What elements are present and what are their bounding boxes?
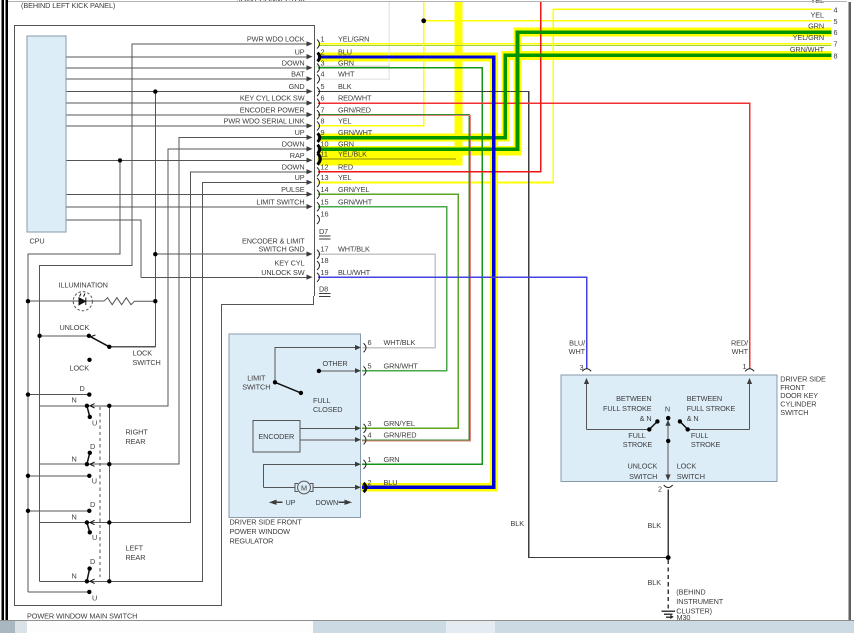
wire pin 19 BLU/WHT to key cylinder pin 3 — [318, 277, 587, 369]
svg-text:YEL/GRN: YEL/GRN — [338, 35, 369, 44]
wire CPU to pin 2 — [66, 56, 309, 58]
M30 marker triangle — [670, 615, 673, 619]
right rear lever B — [87, 453, 90, 464]
wire key cyl pin 3 arrow line — [586, 382, 588, 430]
lamp diode symbol — [79, 294, 86, 306]
svg-text:D: D — [90, 442, 95, 451]
svg-text:WHT: WHT — [732, 347, 749, 356]
connector pin numbers — [321, 35, 329, 277]
svg-text:4: 4 — [368, 430, 372, 439]
wire key cyl rail right — [688, 428, 750, 430]
wire CPU to pin 15 LIMIT SWITCH — [66, 206, 309, 208]
wire CPU to pin 11 RAP — [66, 159, 309, 161]
connector pin arcs bold pins 2,9,10,11,12 — [318, 53, 321, 165]
svg-text:3: 3 — [368, 419, 372, 428]
wire key cylinder pin 2 BLK lead — [667, 490, 669, 558]
svg-text:GRN/YEL: GRN/YEL — [338, 185, 369, 194]
svg-text:GRN/WHT: GRN/WHT — [338, 197, 373, 206]
highlight band pin 11 YEL/BLK and pin 12 area — [317, 2, 463, 165]
svg-text:13: 13 — [321, 173, 329, 182]
svg-text:PWR WDO SERIAL LINK: PWR WDO SERIAL LINK — [224, 117, 305, 126]
svg-text:RED/WHT: RED/WHT — [338, 94, 372, 103]
key cyl top pin arcs — [582, 369, 754, 488]
wire pin 4 WHT to top edge — [318, 2, 389, 79]
svg-text:5: 5 — [834, 17, 838, 26]
wire BLK dashed to ground M30 — [667, 560, 669, 609]
svg-text:17: 17 — [321, 245, 329, 254]
svg-text:BLK: BLK — [511, 519, 525, 528]
svg-text:M: M — [301, 484, 307, 493]
window left border double black line — [2, 0, 5, 621]
svg-text:KEY CYL LOCK SW: KEY CYL LOCK SW — [240, 94, 305, 103]
wire illumination line — [28, 300, 104, 302]
svg-text:CPU: CPU — [30, 237, 45, 246]
bottom scrollbar strip — [0, 621, 854, 633]
wire left rear N line B to pin 13 — [40, 183, 309, 582]
svg-text:CLOSED: CLOSED — [313, 405, 342, 414]
connector pin arc thin pin 12 — [317, 167, 320, 176]
wire pin 12 RED to top edge — [318, 2, 541, 172]
svg-text:N: N — [72, 454, 77, 463]
svg-text:5: 5 — [321, 82, 325, 91]
wire CPU to pin 8 — [66, 125, 309, 127]
junction dot BLK ground node — [666, 555, 671, 560]
left rear lever B — [87, 569, 90, 582]
limit switch contact dots — [273, 369, 321, 395]
svg-text:YEL: YEL — [811, 0, 825, 5]
svg-text:U: U — [92, 533, 97, 542]
svg-text:GRN: GRN — [384, 455, 400, 464]
svg-text:6: 6 — [321, 94, 325, 103]
regulator DOWN arrow — [339, 500, 353, 505]
connector D7/D8 vertical line — [314, 26, 316, 297]
key cyl lock lever — [680, 421, 688, 429]
wire pin 13 YEL to right edge wire 4 — [318, 9, 831, 182]
wire pin 3 GRN to regulator pin 1 — [318, 68, 482, 465]
svg-text:ILLUMINATION: ILLUMINATION — [59, 281, 108, 290]
window right border — [849, 2, 851, 620]
wire N-tie vertical — [108, 406, 110, 582]
svg-text:ENCODER POWER: ENCODER POWER — [240, 105, 305, 114]
svg-text:RIGHT: RIGHT — [126, 428, 149, 437]
wire right rear D line — [28, 394, 89, 396]
svg-text:8: 8 — [834, 51, 838, 60]
dashed mechanical link rear switches — [99, 407, 101, 577]
regulator labels — [242, 359, 347, 507]
wire right rear N line B to pin 9 — [40, 138, 309, 465]
svg-text:SWITCH: SWITCH — [133, 358, 161, 367]
svg-text:LOCK: LOCK — [677, 462, 697, 471]
resistor illumination — [104, 298, 155, 305]
svg-text:9: 9 — [321, 128, 325, 137]
svg-text:D: D — [80, 384, 85, 393]
svg-text:6: 6 — [834, 28, 838, 37]
encoder box — [253, 421, 300, 452]
svg-text:BLK: BLK — [338, 82, 352, 91]
svg-text:YEL: YEL — [338, 117, 352, 126]
connector name D8 — [319, 284, 331, 296]
svg-text:(BEHIND LEFT KICK PANEL): (BEHIND LEFT KICK PANEL) — [21, 1, 115, 10]
svg-text:1: 1 — [743, 362, 747, 371]
wire pin 1 YEL/GRN to right edge wire 7 (yellow part) — [318, 43, 831, 45]
wire CPU to pin 14 PULSE — [66, 193, 309, 195]
wire pin 17 feed — [155, 253, 309, 255]
svg-text:UP: UP — [295, 47, 305, 56]
svg-text:D: D — [90, 557, 95, 566]
svg-text:GRN/RED: GRN/RED — [384, 430, 417, 439]
svg-text:11: 11 — [321, 149, 328, 158]
highlight band pin 2 BLU circuit — [317, 53, 498, 492]
key cyl center line — [667, 418, 669, 479]
svg-text:SWITCH: SWITCH — [677, 472, 705, 481]
wire CPU to pin 7 — [66, 114, 309, 116]
svg-text:FULL: FULL — [313, 396, 330, 405]
svg-text:2: 2 — [658, 485, 662, 494]
svg-text:STROKE: STROKE — [623, 440, 653, 449]
wire key cyl pin 1 arrow line — [749, 382, 751, 430]
right edge pin numbers — [834, 5, 838, 60]
svg-text:INSTRUMENT: INSTRUMENT — [676, 597, 723, 606]
window top border — [8, 1, 847, 3]
svg-text:U: U — [92, 594, 97, 603]
connector signal labels — [224, 35, 306, 277]
svg-text:LOCK: LOCK — [70, 364, 90, 373]
lock switch lever — [89, 336, 109, 347]
wire pin 6 RED/WHT to key cylinder pin 1 — [318, 103, 750, 369]
label RED/WHT at key cyl pin 1 — [731, 339, 749, 372]
svg-text:UP: UP — [295, 128, 305, 137]
svg-text:GRN/WHT: GRN/WHT — [790, 45, 825, 54]
svg-text:D: D — [90, 500, 95, 509]
svg-text:SWITCH: SWITCH — [780, 408, 808, 417]
svg-text:FULL STROKE: FULL STROKE — [687, 404, 736, 413]
svg-text:WHT/BLK: WHT/BLK — [338, 245, 370, 254]
wire regulator pin 6 internal — [275, 348, 356, 383]
wire CPU to pin 5 — [66, 91, 309, 93]
power window main switch box outline — [15, 26, 315, 606]
wire RAP branch down to left bus V2 — [28, 160, 120, 592]
svg-text:DOWN: DOWN — [282, 162, 305, 171]
svg-text:BAT: BAT — [291, 70, 305, 79]
svg-text:18: 18 — [321, 256, 329, 265]
svg-text:7: 7 — [834, 39, 838, 48]
wire pin 1 YEL/GRN (green stripe) — [318, 44, 831, 46]
svg-text:19: 19 — [321, 268, 329, 277]
svg-text:POWER WINDOW MAIN SWITCH: POWER WINDOW MAIN SWITCH — [27, 612, 137, 621]
svg-text:BLK: BLK — [648, 521, 662, 530]
svg-text:GRN/WHT: GRN/WHT — [384, 361, 419, 370]
key cylinder box DRIVER SIDE FRONT DOOR KEY CYLINDER SWITCH — [561, 375, 777, 481]
right edge wire labels — [790, 0, 825, 54]
svg-text:4: 4 — [321, 70, 325, 79]
wire CPU horizontal feed at y 220 — [66, 220, 141, 277]
wire CPU to pin 1 via left bus — [40, 44, 309, 581]
svg-text:YEL: YEL — [338, 173, 352, 182]
svg-text:10: 10 — [321, 140, 329, 149]
svg-text:1: 1 — [368, 455, 372, 464]
svg-text:FULL: FULL — [628, 431, 645, 440]
labels left rear switch letters — [72, 500, 98, 603]
svg-text:BLU: BLU — [384, 478, 398, 487]
svg-text:SWITCH: SWITCH — [629, 472, 657, 481]
wire CPU to pin 6 — [66, 102, 309, 104]
wire unlock switch line — [40, 335, 89, 337]
wire pin 7 GRN/RED green part to regulator pin 4 — [318, 115, 469, 440]
svg-text:ENCODER: ENCODER — [258, 432, 294, 441]
svg-text:REGULATOR: REGULATOR — [230, 537, 274, 546]
svg-text:GRN/RED: GRN/RED — [338, 105, 371, 114]
wire regulator OTHER contact to pin 5 — [319, 370, 356, 372]
wire WHT faint parallel — [316, 65, 389, 67]
wire key cyl rail left — [587, 428, 650, 430]
svg-text:N: N — [665, 405, 670, 414]
key cyl unlock lever — [649, 421, 657, 429]
svg-text:BLU/WHT: BLU/WHT — [338, 268, 371, 277]
wire encoder to pin 3 — [300, 427, 356, 429]
svg-text:GND: GND — [289, 82, 305, 91]
svg-text:LOCK: LOCK — [133, 349, 153, 358]
wire encoder to pin 4 — [300, 439, 356, 441]
wire pin 14 GRN/YEL to regulator pin 3 — [318, 194, 458, 428]
svg-text:DOWN: DOWN — [282, 140, 305, 149]
wire pin 2 BLU thick to regulator pin 2 — [318, 57, 494, 487]
svg-text:5: 5 — [368, 361, 372, 370]
wire pin 9 GRN/WHT thick to right edge wire 8 — [318, 55, 832, 137]
svg-text:7: 7 — [321, 105, 325, 114]
svg-text:15: 15 — [321, 197, 329, 206]
svg-text:REAR: REAR — [126, 437, 146, 446]
svg-text:(BEHIND: (BEHIND — [676, 588, 705, 597]
svg-text:DRIVER SIDE FRONT: DRIVER SIDE FRONT — [230, 518, 303, 527]
svg-text:GRN: GRN — [338, 140, 354, 149]
svg-text:SWITCH: SWITCH — [242, 383, 270, 392]
key cylinder caption — [780, 374, 826, 417]
wire pin 19 feed — [141, 276, 309, 278]
svg-text:LIMIT: LIMIT — [247, 374, 266, 383]
key cyl arrowheads — [584, 378, 752, 481]
svg-text:WHT/BLK: WHT/BLK — [384, 338, 416, 347]
highlight band pin 10 GRN circuit — [317, 28, 832, 156]
svg-text:DOWN: DOWN — [316, 498, 339, 507]
svg-text:& N: & N — [640, 414, 652, 423]
svg-text:SWITCH GND: SWITCH GND — [258, 245, 304, 254]
wire GND branch to pin 17 and illumination — [109, 92, 155, 347]
wire left rear D line — [28, 510, 89, 512]
svg-text:U: U — [92, 477, 97, 486]
svg-text:DOWN: DOWN — [282, 59, 305, 68]
wire left rear U line B — [28, 591, 89, 593]
motor M1 symbol — [298, 481, 311, 494]
connector pin arcs thin pins 1,3,4,5,6,7,8,13,14,15,16,17,18,19 — [317, 40, 320, 282]
svg-text:N: N — [72, 396, 77, 405]
regulator pin arrowheads — [355, 345, 361, 490]
svg-text:FULL: FULL — [691, 431, 708, 440]
lever barbs — [90, 335, 95, 584]
label behind instrument cluster — [676, 588, 723, 616]
svg-text:GRN: GRN — [338, 59, 354, 68]
svg-text:N: N — [72, 513, 77, 522]
wire pin 17 WHT/BLK to regulator pin 6 — [318, 254, 435, 348]
svg-text:12: 12 — [321, 162, 329, 171]
svg-text:3: 3 — [580, 363, 584, 372]
regulator pin 2 bold arc — [364, 483, 367, 492]
svg-text:GRN: GRN — [808, 22, 824, 31]
svg-text:U: U — [92, 419, 97, 428]
right rear lever A — [87, 406, 90, 417]
svg-text:YEL: YEL — [811, 11, 825, 20]
wire pin 5 BLK to key cylinder ground junction — [318, 92, 668, 558]
regulator wire colours — [384, 338, 419, 487]
svg-text:2: 2 — [368, 478, 372, 487]
svg-text:BETWEEN: BETWEEN — [687, 394, 722, 403]
wire CPU to pin 3 — [66, 67, 309, 69]
svg-text:UNLOCK: UNLOCK — [627, 462, 657, 471]
svg-text:N: N — [72, 571, 77, 580]
svg-text:YEL/BLK: YEL/BLK — [338, 149, 367, 158]
svg-text:PULSE: PULSE — [281, 185, 305, 194]
connector name D7 — [319, 227, 331, 239]
regulator UP arrow — [269, 500, 283, 505]
svg-text:BLU: BLU — [338, 47, 352, 56]
svg-text:UP: UP — [286, 498, 296, 507]
limit switch lever — [275, 382, 301, 393]
key cyl contact dots — [647, 416, 690, 443]
wire pin 10 GRN thick to right edge wire 6 — [318, 32, 832, 149]
label BLU/WHT at key cyl pin 3 — [569, 339, 586, 373]
wire right rear U line B — [28, 475, 89, 477]
svg-text:WHT: WHT — [338, 70, 355, 79]
wire pin 7 GRN/RED red stripe — [318, 116, 471, 441]
wire motor circuit to pin 1 — [263, 464, 355, 487]
regulator pin numbers — [368, 338, 372, 487]
svg-text:STROKE: STROKE — [691, 440, 721, 449]
key cylinder internals — [587, 382, 750, 480]
left rear lever A — [87, 523, 90, 533]
wire pin 11 YEL/BLK black stripe — [318, 158, 456, 160]
svg-text:BLK: BLK — [648, 578, 662, 587]
CPU box — [27, 36, 66, 232]
svg-text:6: 6 — [368, 338, 372, 347]
svg-text:GRN/WHT: GRN/WHT — [338, 128, 373, 137]
regulator pin arcs — [364, 343, 367, 469]
svg-text:FULL STROKE: FULL STROKE — [603, 404, 652, 413]
svg-text:LIMIT SWITCH: LIMIT SWITCH — [256, 197, 304, 206]
highlight band pin 9 GRN/WHT circuit — [317, 51, 832, 142]
svg-text:UNLOCK SW: UNLOCK SW — [261, 268, 305, 277]
wire pin 15 GRN/WHT to regulator pin 5 — [318, 207, 447, 371]
svg-text:WHT: WHT — [569, 347, 586, 356]
lamp illumination circle — [73, 292, 92, 311]
svg-text:14: 14 — [321, 185, 329, 194]
svg-text:RAP: RAP — [290, 151, 305, 160]
svg-text:3: 3 — [321, 59, 325, 68]
svg-text:RED: RED — [338, 162, 353, 171]
svg-text:KEY CYL: KEY CYL — [275, 259, 305, 268]
wire motor to pin 2 — [263, 487, 355, 489]
wire pin 8 YEL up to junction and right edge wire 5 — [318, 2, 831, 126]
svg-text:LEFT: LEFT — [126, 544, 144, 553]
labels right rear switch letters — [72, 384, 98, 486]
regulator box DRIVER SIDE FRONT POWER WINDOW REGULATOR — [229, 334, 361, 518]
svg-text:REAR: REAR — [126, 553, 146, 562]
svg-text:PWR WDO LOCK: PWR WDO LOCK — [247, 35, 305, 44]
wire right rear N line A to pin 10 — [40, 149, 309, 406]
svg-text:OTHER: OTHER — [323, 359, 348, 368]
junction dots left tree — [26, 89, 158, 594]
svg-text:YEL/GRN: YEL/GRN — [793, 33, 824, 42]
wire CPU to pin 4 — [66, 78, 309, 80]
regulator caption — [230, 518, 303, 546]
svg-text:UNLOCK: UNLOCK — [60, 323, 90, 332]
junction dot yellow node at (423.7,20.8) — [421, 18, 426, 23]
svg-text:BETWEEN: BETWEEN — [616, 394, 651, 403]
svg-text:D7: D7 — [319, 227, 328, 236]
svg-text:POWER WINDOW: POWER WINDOW — [230, 527, 291, 536]
svg-text:1: 1 — [321, 35, 325, 44]
wire left rear N line A to pin 12 — [40, 172, 309, 523]
svg-text:GRN/YEL: GRN/YEL — [384, 419, 415, 428]
svg-text:D8: D8 — [319, 284, 328, 293]
svg-text:& N: & N — [687, 414, 699, 423]
svg-text:16: 16 — [321, 210, 329, 219]
key cylinder labels — [603, 394, 735, 494]
connector wire colour labels — [338, 35, 373, 277]
svg-text:8: 8 — [321, 117, 325, 126]
svg-text:2: 2 — [321, 47, 325, 56]
svg-text:4: 4 — [834, 5, 838, 14]
connector pin arrowheads pins 1-15,17,19 — [307, 41, 313, 280]
regulator internals — [253, 348, 356, 494]
wire lock switch output — [109, 346, 155, 348]
svg-text:UP: UP — [295, 173, 305, 182]
ground M30 symbol — [662, 611, 676, 617]
